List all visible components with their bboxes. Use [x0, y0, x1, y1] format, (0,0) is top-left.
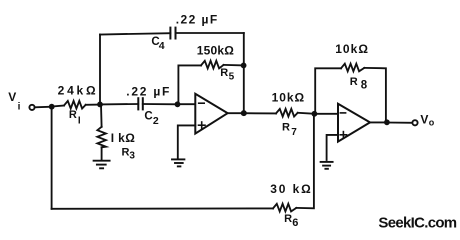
- wire U2 output to node F: [370, 121, 387, 123]
- C4 designator label: [151, 36, 164, 52]
- junction node D (R5/C4 branch): [241, 63, 247, 69]
- wire bottom branch to R6: [52, 207, 273, 209]
- C2 designator label: [144, 111, 159, 127]
- svg-text:24kΩ: 24kΩ: [58, 84, 99, 98]
- resistor R1: [52, 101, 100, 109]
- wire node B to U1 inverting input: [178, 103, 196, 105]
- R1 designator label: [69, 109, 81, 127]
- svg-text:R: R: [350, 76, 358, 88]
- svg-text:V: V: [8, 90, 16, 104]
- resistor R5: [201, 61, 224, 69]
- op-amp U2: [338, 104, 370, 142]
- svg-text:.22 µF: .22 µF: [176, 12, 219, 26]
- capacitor C4: [170, 28, 175, 39]
- svg-text:8: 8: [361, 80, 368, 92]
- svg-text:.22 µF: .22 µF: [126, 85, 171, 99]
- junction input node: [49, 104, 55, 110]
- svg-text:I kΩ: I kΩ: [111, 131, 135, 145]
- ground (U2 noninverting input): [321, 162, 333, 169]
- svg-text:V: V: [420, 112, 428, 126]
- svg-text:2: 2: [153, 115, 159, 127]
- svg-text:4: 4: [159, 40, 165, 52]
- resistor R6: [273, 204, 296, 212]
- svg-text:3: 3: [129, 151, 135, 162]
- svg-text:o: o: [429, 117, 435, 127]
- svg-text:R: R: [284, 213, 292, 225]
- svg-text:i: i: [18, 102, 21, 113]
- wire C4 branch down to node E: [243, 33, 245, 113]
- resistor R7: [244, 109, 315, 117]
- output label Vo: [420, 112, 434, 127]
- R5 designator label: [220, 67, 234, 83]
- wire node C up to R8: [315, 68, 341, 114]
- wire top branch left segment: [100, 33, 170, 34]
- R6 designator label: [284, 213, 298, 229]
- svg-text:R: R: [122, 147, 130, 159]
- wire node A to C2: [100, 103, 138, 105]
- svg-text:R: R: [282, 121, 290, 133]
- wire U1 noninverting input to ground: [178, 125, 196, 158]
- wire R8 down to U2 output: [364, 68, 386, 122]
- resistor R8: [341, 64, 364, 72]
- svg-text:5: 5: [229, 72, 235, 83]
- svg-text:10kΩ: 10kΩ: [272, 91, 305, 105]
- svg-text:7: 7: [291, 127, 297, 138]
- wire node B up to R5: [178, 65, 201, 104]
- wire U2 noninverting input to ground: [327, 135, 338, 160]
- wire Vi terminal to input junction: [35, 106, 52, 109]
- resistor R3: [97, 104, 106, 159]
- op-amp U1: [195, 94, 227, 134]
- junction node F (U2 output): [384, 119, 390, 125]
- node A junction (R1/R3/C2/C4 branch): [97, 102, 103, 108]
- output terminal Vo: [412, 120, 417, 125]
- R7 designator label: [282, 121, 297, 137]
- wire top branch right segment: [176, 32, 244, 34]
- wire node A up to top branch: [99, 35, 101, 105]
- svg-text:SeekIC.com: SeekIC.com: [378, 215, 456, 232]
- svg-text:C: C: [144, 111, 152, 123]
- wire R6 up to node C: [296, 114, 314, 209]
- junction node E (U1 output): [241, 110, 247, 116]
- ground (R3): [94, 161, 110, 169]
- wire input junction down to bottom branch: [51, 107, 53, 209]
- svg-text:6: 6: [292, 217, 298, 229]
- R8 designator label: [350, 76, 368, 92]
- svg-text:150kΩ: 150kΩ: [197, 44, 234, 58]
- svg-text:10kΩ: 10kΩ: [335, 42, 369, 56]
- ground (U1 noninverting input): [172, 159, 184, 166]
- wire C2 to node B: [143, 103, 178, 105]
- svg-text:R: R: [220, 67, 228, 79]
- svg-text:I: I: [78, 116, 81, 127]
- wire R5 to node D: [224, 64, 244, 67]
- node B junction (inverting input of U1): [175, 101, 181, 107]
- capacitor C2: [138, 98, 143, 109]
- node C junction (R7/R8/R6/U2 input): [312, 111, 318, 117]
- wire node F to output terminal: [387, 122, 412, 124]
- svg-text:R: R: [69, 109, 77, 121]
- input terminal Vi: [29, 105, 34, 110]
- input label Vi: [8, 90, 20, 113]
- wire node C to U2 inverting input: [314, 113, 338, 115]
- wire U1 output to node E: [228, 112, 244, 114]
- svg-text:30 kΩ: 30 kΩ: [270, 182, 312, 196]
- R3 designator label: [122, 147, 136, 162]
